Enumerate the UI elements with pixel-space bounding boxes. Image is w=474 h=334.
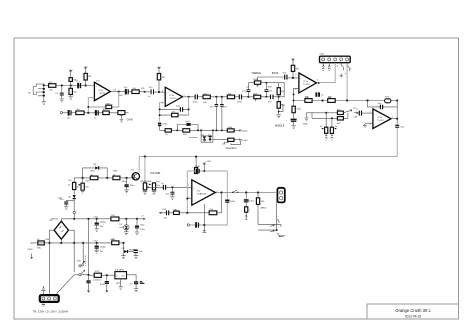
node vref2 [293,100,295,102]
svg-text:100u: 100u [249,200,255,202]
capacitor C48 to ground [165,187,174,196]
op-amp IC1A [94,82,110,100]
node row2 [331,117,333,119]
input jack J1 [28,84,45,100]
trimmer dark box [186,123,190,126]
speaker switch lever [233,190,237,193]
svg-text:NTC: NTC [385,97,390,99]
node sw out [87,274,89,276]
ground below C62 [64,207,68,210]
wire R9 to pot [84,112,118,114]
node rail q [73,218,75,220]
clipping diode D2 [208,134,212,142]
capacitor C43 series input [356,108,362,115]
resistor R36 [328,99,336,103]
resistor R68 on mid rail [112,241,119,245]
capacitor C62 side branch [60,199,74,206]
capacitor C70 below sw [86,275,90,287]
svg-text:470u: 470u [100,284,106,286]
wire R57 down [257,204,259,224]
svg-text:TREBLE: TREBLE [251,72,261,75]
capacitor C8 series [67,110,71,119]
wire sw to R71 [89,274,95,276]
mid rail [30,242,124,244]
node gain junction [87,112,89,114]
bass row wire [248,96,284,98]
svg-text:100u: 100u [122,181,128,183]
svg-text:1M: 1M [162,77,165,79]
op-amp IC3 TDA2030 [192,180,216,205]
potentiometer BASS [254,95,261,101]
capacitor C73 reg out [134,281,144,289]
svg-text:phone: phone [280,235,287,237]
svg-text:VOLUME: VOLUME [150,172,161,175]
op1 feedback wire segment [88,106,118,108]
ground below C64 [95,229,99,232]
treble row wire [248,82,284,84]
node mid right [122,242,124,244]
ground below C73 [134,289,138,292]
right loop vertical [283,83,285,97]
svg-text:100u: 100u [296,109,302,111]
wire jack to R1 [44,85,49,87]
gray left vertical fb [186,171,188,213]
connector CN2 body [320,53,351,62]
resistor R35 [305,99,312,103]
switch hook top [277,219,279,223]
output wire [216,192,276,194]
switch arrow 2 [270,230,274,232]
V+ arrow power [203,163,207,171]
V+ arrow above R27 [291,59,295,65]
resistor R52 [174,211,180,214]
potentiometer VOLUME [143,183,149,190]
wire R71 to reg [101,274,115,276]
capacitor C26 series top [282,72,287,79]
svg-text:(10ohm): (10ohm) [93,280,101,282]
earth symbol above pin1 [41,286,45,295]
diode D6 zener [68,190,76,212]
resistor R27 bias op3 [291,65,299,78]
fb bottom wire [160,212,222,214]
op2 feedback right vertical [188,97,190,115]
ground below C2 [60,99,64,102]
CN2 pin2 ground [328,63,330,71]
svg-text:1M: 1M [88,76,91,78]
row1 arrow to pot [343,109,352,112]
wire lower pin down [276,198,279,230]
ground below LED [124,232,128,235]
wire bridge bottom [60,239,62,243]
node at C2 [61,84,63,86]
ground below middle pot [277,114,281,118]
node led [125,218,127,220]
CN2 pin1 ground [322,63,324,71]
resistor R6 bias from V+ [84,73,91,85]
CN2 pin3 wire to op3 output [319,63,335,83]
capacitor C50 series on loop [192,167,199,174]
op-amp IC1B [165,87,182,106]
ground stub left [304,113,312,121]
resistor R58 [90,176,98,180]
svg-text:TL074: TL074 [377,120,384,122]
resistor R39 [337,111,343,114]
node rail ac1 [48,242,50,244]
resistor R17 [183,129,190,132]
svg-text:ZD: ZD [68,197,71,199]
gray rail wire [139,128,397,157]
capacitor C28 mid vertical [264,83,272,97]
capacitor C54 series return [192,222,199,232]
resistor R21 [227,95,234,99]
capacitor C11 series on gain line [94,110,98,119]
op2 inverting input vertical [160,102,166,121]
svg-text:100u: 100u [140,224,146,226]
resistor R1 [49,84,56,88]
PE mark below [42,305,46,306]
node [176,129,178,131]
capacitor C34 electrolytic [286,119,297,126]
op4 plus input ground [363,123,373,127]
node bass mid [265,96,267,98]
capacitor C15 electrolytic on vertical [153,121,168,130]
V- arrow below [203,225,207,233]
wire to raw rail [73,214,75,219]
ground below C67 [95,250,99,253]
op4 feedback wire2 with C38 [368,101,398,119]
svg-text:GAIN: GAIN [127,118,133,121]
overdrive second line [213,139,237,141]
op-amp IC2A [299,73,317,93]
svg-text:100n: 100n [230,201,236,203]
wire R1 to op-amp [56,85,95,87]
capacitor C51 series fb [164,210,169,219]
wire op2 out chain [195,96,249,98]
LED D7 [119,219,129,232]
node pin5 junction [346,99,348,101]
wire C8 to R9 [71,112,76,114]
ground below input jack [42,99,46,104]
node rail x83 [82,242,84,244]
ground below C69 [134,256,138,259]
ground below volume pot [143,190,147,195]
svg-text:1M: 1M [296,68,299,70]
svg-text:IC1a: IC1a [99,90,104,92]
ground arrow below zobel [245,215,247,220]
svg-text:IC4 7809: IC4 7809 [115,270,125,272]
svg-text:(od2): (od2) [242,140,247,142]
capacitor C32 near output [315,92,324,96]
resistor R3 to V+ [69,73,77,85]
capacitor C5 series electrolytic [76,81,81,89]
transistor Q1 [131,170,140,180]
svg-text:470n: 470n [237,101,243,103]
svg-text:TDA2030: TDA2030 [197,192,207,195]
node rail bridge [60,242,62,244]
node at R6 [85,84,87,86]
wire C26 to op3 [287,77,299,79]
node output 1 [220,191,222,193]
capacitor C7 series after op1 [124,87,129,95]
AC vertical right [69,230,75,272]
op4 output wire [391,118,397,120]
svg-text:IC1d: IC1d [377,117,382,119]
svg-text:TL072: TL072 [169,98,176,100]
capacitor C69 [131,250,144,256]
node V+ arrow loop [203,170,205,172]
resistor R9 [76,111,84,115]
svg-text:100u: 100u [130,185,136,187]
ground below C66 [135,232,139,235]
potentiometer TREBLE [254,81,260,87]
node cap66 [136,218,138,220]
raw plus rail [61,219,143,221]
diagonal mains to switch [57,275,75,294]
connector CN3 speaker [277,188,284,203]
V+ arrow above R14 [157,67,161,73]
wiper wire to power amp [147,186,192,188]
resistor R12 [132,90,139,94]
cap mark left of R24 [224,141,228,143]
svg-text:(8R2): (8R2) [261,207,267,209]
bridge rectifier B1 [50,220,69,239]
capacitor C47 series [161,183,166,190]
node 47n right [221,96,223,98]
resistor R16 [165,129,171,132]
node speaker branch [257,191,259,193]
node fb left [366,99,368,101]
svg-text:220u: 220u [162,124,168,126]
capacitor C20 47n vertical [220,97,228,130]
gain line terminal [60,112,62,114]
svg-text:2012-04-16: 2012-04-16 [405,315,422,319]
switch pole1 [79,243,85,267]
svg-text:Orange Crush 30 L: Orange Crush 30 L [395,308,431,313]
resistor R71 [94,273,101,277]
resistor R18 [203,95,210,99]
svg-text:Overdrive: Overdrive [226,147,237,150]
op2 output wire [183,96,196,98]
arrow ground below C72 [106,287,108,293]
power amp top gray loop [187,171,227,225]
ground below regulator [119,279,123,290]
mains left arrow [31,254,33,259]
net arrow B [237,139,241,141]
potentiometer GAIN [118,111,129,123]
capacitor C46 boxed bright [149,183,161,190]
svg-text:1N4002: 1N4002 [128,250,136,252]
svg-text:100u: 100u [140,229,146,231]
node bias op2 [158,91,160,93]
node fb right [396,99,398,101]
node rail x74 [73,242,75,244]
svg-text:C5 +: C5 + [76,81,81,83]
overdrive bottom line [160,129,237,131]
regulator IC4 [115,270,127,279]
capacitor C29 series bass row [268,95,273,104]
svg-text:LED: LED [119,227,124,229]
diode D5 bypass loop [83,164,108,178]
op3 output wire [317,82,319,84]
capacitor C60 base filter [125,178,136,190]
node vref1 [293,93,295,95]
capacitor C55 zobel [244,193,255,207]
node op2 out [188,96,190,98]
terminal circle return [187,224,189,226]
ground below C63 [80,190,84,193]
wire row2 [312,117,337,119]
node rail cap2 [96,242,98,244]
node loop right [197,129,199,131]
AC vertical left [50,230,55,295]
svg-text:TL074: TL074 [303,84,310,86]
node reg in [106,274,108,276]
node 47n left [215,96,217,98]
capacitor C19 47n vertical [210,97,218,130]
capacitor C58 on return vertical [225,200,229,202]
fb right vertical [221,193,223,213]
ground below C46 [152,190,156,195]
clipping diode D1 [201,134,206,142]
op4 input wiper arrow [354,112,358,114]
node rail volume [144,155,146,157]
capacitor C25 on left vertical [242,89,250,97]
resistor R49 supply top [195,156,198,174]
svg-text:TR: 230V / 2x 15V~, 2x30VA: TR: 230V / 2x 15V~, 2x30VA [33,310,69,314]
supply line to Q1 [74,177,132,179]
capacitor C13 series [149,87,154,95]
svg-text:(od1): (od1) [242,131,247,133]
trimmer loop upper [177,125,198,131]
switch arrow 1 [270,224,274,226]
pin4 ground [339,74,343,79]
capacitor C63 boxed [78,178,89,190]
wire C43 to op4 [362,112,373,114]
svg-text:230V: 230V [28,249,34,251]
capacitor C10 series [193,94,199,103]
svg-text:MIDDLE: MIDDLE [275,124,285,127]
resistor R37 rounded [385,97,391,103]
node d1 [82,177,84,179]
node op3 plus [292,77,294,79]
arrow ground below C70 [87,287,89,293]
resistor R59 [113,176,120,180]
CN2 pin4 switch hook [341,63,344,70]
node at bias divider [70,84,72,86]
op2 feedback wire2 with R [159,112,189,117]
resistor R61 left vertical [68,178,76,190]
svg-text:T2A: T2A [45,238,50,241]
resistor R65 on rail [111,217,119,221]
fuse F1 [37,239,45,250]
resistor R31 slope [277,83,285,102]
capacitor C66 [135,219,146,232]
ground below C41 [325,133,327,140]
ground below C60 [124,190,128,193]
switch pole2 [74,270,88,276]
op2 feedback wire1 with C [159,106,190,112]
node treble mid [265,82,267,84]
svg-text:470n: 470n [193,101,199,103]
node mid [144,91,146,93]
wire rail to Q1 [138,157,140,173]
resistor R40 [337,117,343,120]
regulator output wire [127,275,137,281]
negative supply pin vertical [203,204,205,225]
capacitor C22 series [237,94,243,103]
rail end arrow [143,218,145,220]
wire C7 to R12 [128,91,132,93]
svg-text:GND: GND [303,123,308,125]
svg-text:overdrive: overdrive [189,136,199,139]
svg-text:1M: 1M [73,92,76,94]
node return [203,224,205,226]
node d3 [126,177,128,179]
resistor R56 zobel [245,207,251,216]
vertical to treble row [247,83,249,90]
capacitor C33 boxed [292,106,302,118]
net arrow fb [159,212,161,214]
svg-text:TL072: TL072 [99,93,106,95]
node rail cap [96,218,98,220]
wire terminal to C8 [63,112,68,114]
svg-text:KBL04: KBL04 [51,219,58,221]
node fb/gain [87,106,89,108]
V+ arrow above R3 [69,70,73,73]
capacitor C41 boxed [320,113,328,134]
node rail sw [87,218,89,220]
clipping diode frame [201,130,213,142]
V+ arrow above R6 [84,67,88,73]
overdrive line nodes [200,129,202,131]
node op1 output [118,91,120,93]
op-amp1 output wire [110,91,125,93]
resistor R24 [228,138,234,141]
capacitor C42 boxed [330,118,338,133]
headphone switch wires [258,224,281,230]
svg-text:IC1b: IC1b [169,95,174,97]
wire rail to volume pot [144,157,146,183]
ground below D8 [121,252,125,259]
switch gang dashed link [84,256,86,267]
svg-text:CN2: CN2 [320,53,325,55]
title block box [367,304,459,319]
op3 inverting vertical [294,88,299,106]
resistor R7 feedback [106,105,112,108]
node row1 [325,112,327,114]
node d2 [106,177,108,179]
wire R12 to op2 [139,91,165,94]
resistor R10 [103,111,109,115]
minus input stub [187,198,192,200]
connector CN1 mains [40,295,59,302]
capacitor C72 reg in [100,275,109,286]
bottom gray return line [190,224,228,226]
sub-network left vertical [311,113,313,119]
row2 wire up [343,113,348,119]
node middle top [278,96,280,98]
net arrow A [237,129,241,131]
main line after op3 [294,100,398,102]
op1 feedback loop wire [88,92,118,113]
resistor R14 to V+ [157,74,165,93]
CN2 pin5 wire and hook [347,63,350,101]
node zobel [245,191,247,193]
resistor R4 to ground [69,86,77,97]
treble top wire [258,77,285,81]
svg-text:T2A: T2A [37,247,42,250]
resistor R23 overdrive [227,129,234,132]
